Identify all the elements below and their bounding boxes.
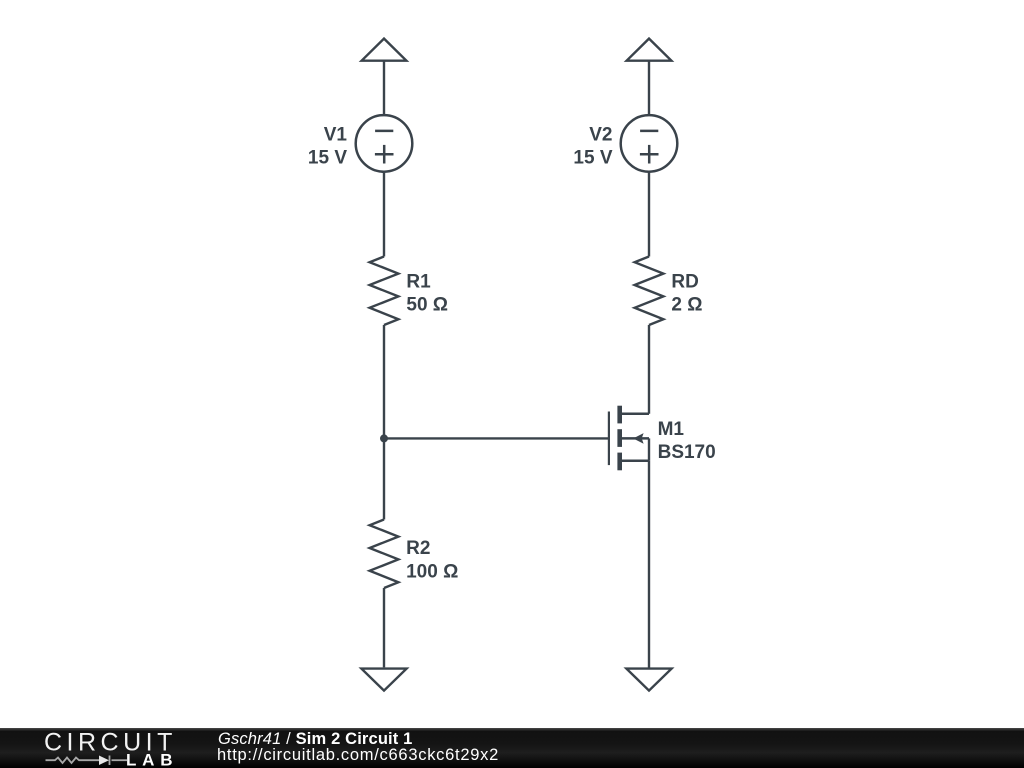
label M1 BS170	[658, 419, 716, 463]
footer url text	[217, 746, 499, 765]
wire power flag to V2	[648, 60, 650, 116]
wire RD to drain of M1	[648, 325, 650, 414]
resistor RD	[635, 257, 664, 326]
footer bar	[0, 728, 1024, 768]
svg-text:2 Ω: 2 Ω	[671, 295, 702, 316]
ground (left)	[361, 669, 406, 691]
footer title text	[218, 730, 413, 749]
power flag (top of V2 branch)	[627, 39, 672, 61]
svg-text:R2: R2	[406, 538, 430, 559]
label V2 15 V	[573, 125, 612, 169]
wire power flag to V1	[383, 60, 385, 116]
svg-text:R1: R1	[406, 271, 431, 292]
wire V2 to RD	[648, 171, 650, 256]
resistor R1	[370, 257, 399, 326]
transistor M1 (NMOS)	[609, 406, 649, 471]
ground (right)	[626, 669, 671, 691]
voltage source V2	[621, 115, 678, 172]
wire R1 to node A	[383, 325, 385, 438]
svg-text:RD: RD	[671, 271, 698, 292]
resistor R2	[370, 520, 399, 589]
svg-text:50 Ω: 50 Ω	[406, 295, 448, 316]
svg-text:15 V: 15 V	[308, 148, 347, 169]
svg-text:V1: V1	[324, 124, 348, 145]
wire node A to R2	[383, 438, 385, 519]
wire R2 to ground	[383, 588, 385, 667]
label R1 50 Ω	[406, 271, 448, 315]
svg-text:LAB: LAB	[126, 751, 178, 768]
CircuitLab logo	[0, 728, 230, 768]
voltage source V1	[356, 115, 413, 172]
wire source of M1 to ground	[648, 461, 650, 668]
power flag (top of V1 branch)	[362, 39, 407, 61]
svg-text:15 V: 15 V	[573, 148, 612, 169]
svg-text:100 Ω: 100 Ω	[406, 561, 458, 582]
svg-text:V2: V2	[589, 125, 612, 146]
svg-text:BS170: BS170	[658, 442, 716, 463]
label V1 15 V	[308, 124, 348, 168]
node A junction dot	[380, 434, 388, 442]
wire node A to gate of M1	[384, 437, 609, 439]
svg-text:M1: M1	[658, 419, 685, 440]
wire V1 to R1	[383, 171, 385, 256]
label RD 2 Ω	[671, 271, 702, 315]
label R2 100 Ω	[406, 538, 458, 582]
